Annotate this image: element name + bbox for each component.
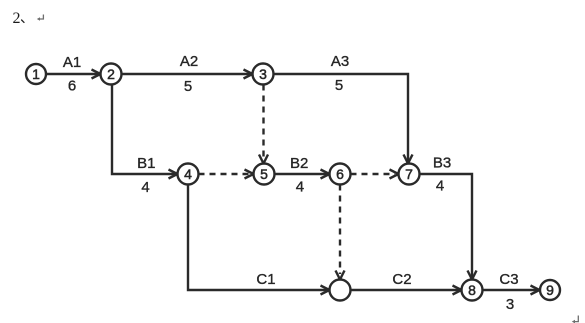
- node 6: [330, 164, 351, 185]
- svg-text:B3: B3: [433, 155, 451, 172]
- wire A2: node2 to node3: [122, 70, 253, 79]
- node 3: [253, 64, 274, 85]
- svg-text:A2: A2: [180, 53, 198, 70]
- node 2: [101, 64, 122, 85]
- svg-text:C2: C2: [392, 271, 411, 288]
- svg-text:2: 2: [13, 10, 21, 27]
- svg-text:4: 4: [296, 179, 304, 196]
- svg-text:1: 1: [32, 66, 40, 82]
- node 5: [254, 164, 275, 185]
- svg-text:6: 6: [68, 78, 76, 95]
- paragraph return mark (top): [37, 15, 44, 21]
- wire B3: node7 right then down into node8: [420, 174, 477, 280]
- wire C2: blank node to node8: [351, 286, 462, 295]
- wire C3: node8 to node9: [483, 286, 540, 295]
- dashed wire: node6 to node7: [351, 170, 399, 179]
- node 1: [26, 64, 46, 84]
- svg-text:4: 4: [436, 178, 444, 195]
- svg-text:6: 6: [336, 166, 344, 182]
- svg-text:5: 5: [184, 78, 192, 95]
- svg-text:4: 4: [141, 179, 149, 196]
- svg-text:3: 3: [259, 66, 267, 82]
- node blank (unnumbered): [330, 280, 351, 301]
- dashed wire: node3 down to node5: [259, 85, 268, 164]
- svg-text:A1: A1: [63, 54, 81, 71]
- svg-text:9: 9: [546, 282, 554, 298]
- node 4: [178, 164, 199, 185]
- svg-text:B2: B2: [290, 155, 308, 172]
- wire C1: node4 down then right into blank node: [188, 185, 330, 295]
- svg-text:7: 7: [405, 166, 413, 182]
- svg-text:C3: C3: [499, 271, 518, 288]
- wire A3: node3 right then down into node7: [274, 74, 413, 164]
- svg-text:A3: A3: [331, 53, 349, 70]
- heading "2、": [13, 10, 25, 27]
- wire A1: node1 to node2: [47, 70, 101, 79]
- dashed wire: node6 down to blank node: [336, 185, 345, 280]
- wire B2: node5 to node6: [275, 170, 330, 179]
- paragraph return mark (bottom right): [572, 316, 579, 323]
- node 9: [540, 280, 560, 300]
- dashed wire: node4 to node5: [199, 170, 254, 179]
- svg-text:8: 8: [468, 282, 476, 298]
- node 8: [462, 280, 483, 301]
- svg-text:2: 2: [107, 66, 115, 82]
- wire B1: node2 down then right into node4: [112, 85, 178, 179]
- svg-text:4: 4: [184, 166, 192, 182]
- svg-text:C1: C1: [256, 271, 275, 288]
- svg-text:3: 3: [506, 296, 514, 313]
- svg-text:5: 5: [335, 77, 343, 94]
- node 7: [399, 164, 420, 185]
- svg-text:5: 5: [260, 166, 268, 182]
- svg-text:B1: B1: [137, 155, 155, 172]
